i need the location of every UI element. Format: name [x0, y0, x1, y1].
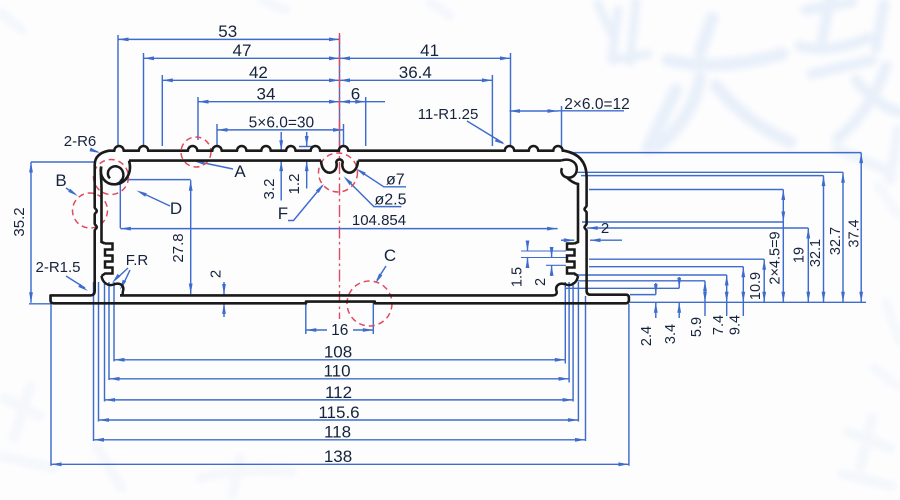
ext bottom ref [630, 301, 866, 303]
dim 16 [305, 303, 307, 334]
svg-text:3.4: 3.4 [663, 324, 679, 344]
extension line top right [343, 124, 345, 146]
svg-text:47: 47 [233, 41, 252, 60]
ext right 32.7 [576, 171, 843, 173]
ext right 2x4.5 [589, 189, 783, 191]
dim 2.4 [655, 283, 657, 295]
svg-text:118: 118 [324, 423, 351, 442]
svg-text:16: 16 [331, 322, 348, 339]
ext right 5.9 [577, 280, 705, 282]
dim 9.4 [742, 267, 744, 303]
svg-text:2-R1.5: 2-R1.5 [35, 259, 80, 276]
left inner wall [101, 167, 105, 244]
svg-text:C: C [384, 246, 396, 265]
dim 34 [198, 101, 340, 103]
circle A [181, 137, 211, 167]
svg-text:11-R1.25: 11-R1.25 [418, 106, 479, 123]
svg-text:9.4: 9.4 [728, 315, 744, 335]
D box lines [120, 179, 190, 181]
ext right 32.1 [581, 175, 824, 177]
dim 6 [340, 101, 386, 103]
svg-text:F.R: F.R [126, 252, 149, 269]
svg-text:32.7: 32.7 [828, 227, 844, 255]
svg-text:115.6: 115.6 [318, 403, 359, 422]
circle F [319, 153, 358, 192]
svg-text:5.9: 5.9 [689, 317, 705, 337]
left channel curl [108, 166, 123, 184]
ext bottom right [564, 282, 566, 364]
svg-text:3.2: 3.2 [261, 179, 278, 200]
left screw channel [101, 161, 130, 185]
extension line top left [117, 35, 119, 146]
dim 7.4 [726, 275, 728, 302]
right bottom boss [553, 276, 578, 295]
dim 3.4 [678, 277, 680, 288]
dim 19 [807, 228, 809, 302]
svg-text:D: D [170, 199, 182, 218]
ext bottom left [50, 296, 52, 466]
dim 36.4 [340, 79, 493, 81]
dim 115.6 [99, 419, 579, 421]
svg-text:5×6.0=30: 5×6.0=30 [249, 115, 315, 132]
ext right 7.4 [574, 274, 727, 276]
left bottom boss [102, 276, 124, 295]
svg-text:27.8: 27.8 [170, 233, 187, 262]
dim 2 tooth [546, 264, 566, 266]
svg-text:37.4: 37.4 [847, 219, 863, 247]
svg-text:7.4: 7.4 [711, 315, 727, 335]
dim 37.4 [860, 153, 862, 303]
dim 2 plate [223, 282, 225, 295]
dim 1.2 [306, 132, 308, 147]
svg-text:2.4: 2.4 [639, 326, 655, 346]
svg-text:32.1: 32.1 [808, 239, 824, 267]
svg-text:108: 108 [324, 343, 352, 362]
svg-text:2-R6: 2-R6 [64, 133, 97, 150]
svg-text:2: 2 [208, 270, 225, 278]
svg-text:ø7: ø7 [386, 172, 405, 189]
circle C [347, 281, 392, 326]
svg-text:1.5: 1.5 [510, 267, 526, 287]
svg-text:2×4.5=9: 2×4.5=9 [768, 231, 784, 284]
profile outer contour [51, 146, 629, 303]
dim 112 [105, 399, 574, 401]
svg-text:6: 6 [351, 85, 360, 104]
centerline [339, 33, 341, 319]
dim 118 [94, 439, 586, 441]
dim 138 [51, 463, 629, 465]
svg-text:53: 53 [218, 22, 237, 41]
screw boss omega [321, 159, 358, 172]
dim 5.9 [704, 281, 706, 303]
circle B [73, 193, 108, 228]
svg-text:10.9: 10.9 [748, 272, 764, 300]
svg-text:B: B [55, 171, 66, 190]
svg-text:110: 110 [323, 362, 350, 381]
dim 10.9 [763, 259, 765, 302]
left wall teeth [102, 244, 113, 277]
svg-text:19: 19 [792, 247, 808, 263]
svg-text:2×6.0=12: 2×6.0=12 [564, 96, 630, 113]
dim 27.8 [190, 180, 192, 294]
svg-text:A: A [234, 162, 246, 181]
svg-text:35.2: 35.2 [11, 207, 28, 236]
svg-text:42: 42 [249, 63, 268, 82]
dim 110 [109, 378, 569, 380]
top wall inner left [129, 159, 321, 162]
dim 2x4.5=9 [782, 190, 784, 303]
dim 108 [114, 359, 565, 361]
svg-text:36.4: 36.4 [399, 63, 432, 82]
dim 2x6.0=12 [510, 110, 559, 112]
ext right 3.4 [565, 287, 679, 289]
dim 104.854 [120, 228, 557, 230]
svg-text:138: 138 [324, 447, 352, 466]
dim 32.1 [823, 176, 825, 303]
extension line centerline [339, 35, 341, 146]
dim 2 wall [587, 227, 808, 229]
plate top inner [120, 294, 553, 297]
dim 32.7 [842, 172, 844, 302]
ext right 9.4 [589, 266, 743, 268]
dim 41 [340, 57, 511, 59]
svg-text:F: F [278, 204, 288, 223]
right wall teeth [567, 244, 578, 277]
dim 47 [144, 57, 340, 59]
right ear channel [561, 160, 577, 178]
top wall inner right [358, 159, 561, 162]
circle D [94, 160, 129, 195]
svg-text:2: 2 [533, 278, 549, 286]
svg-text:112: 112 [325, 383, 352, 402]
dim 3.2 [280, 132, 282, 151]
svg-text:34: 34 [257, 85, 276, 104]
dim 35.2 [30, 162, 32, 303]
svg-text:1.2: 1.2 [286, 174, 303, 195]
right ear to wall [567, 177, 578, 243]
ext right 2.4 [630, 294, 656, 296]
dim 1.5 [521, 250, 566, 252]
dim 42 [162, 79, 339, 81]
dim 5x6.0=30 [217, 129, 344, 131]
dim 53 [118, 38, 340, 40]
ext right 10.9 [589, 258, 764, 260]
svg-text:104.854: 104.854 [352, 212, 406, 229]
ext right 37.4 [572, 152, 861, 154]
svg-text:41: 41 [420, 41, 439, 60]
